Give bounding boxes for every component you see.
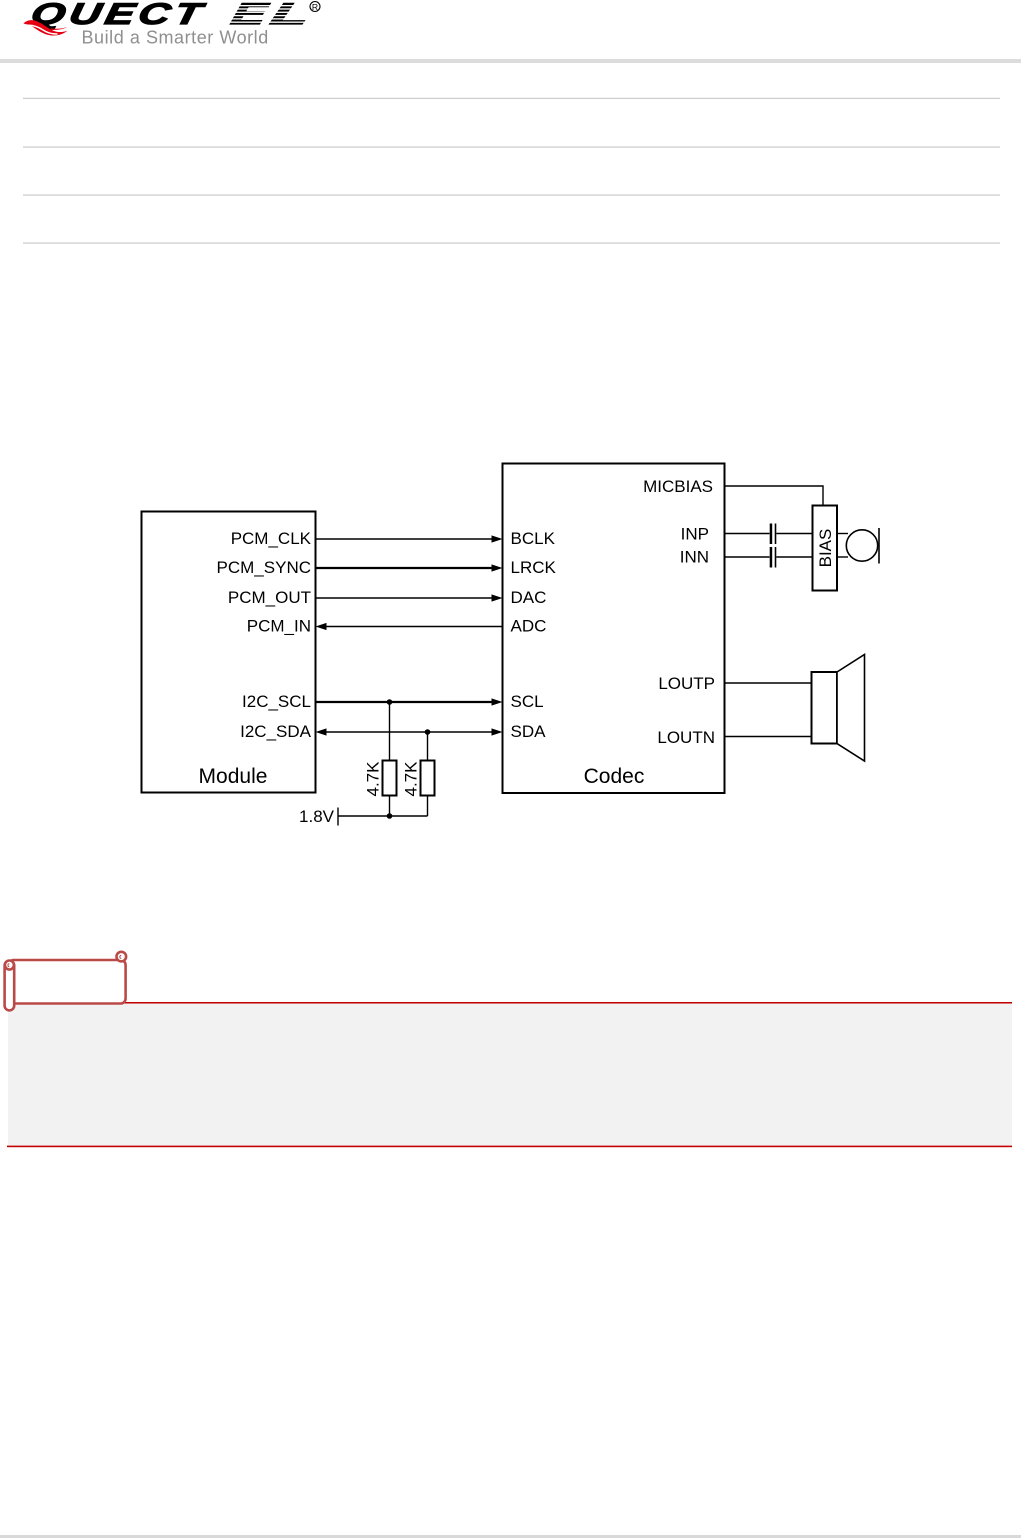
arrowhead DAC: [492, 594, 503, 601]
note scroll icon: [5, 952, 127, 1011]
arrowhead SDA left: [316, 728, 327, 735]
svg-text:MICBIAS: MICBIAS: [643, 477, 713, 496]
capacitor C2: [770, 547, 777, 568]
note gray area: [8, 1004, 1012, 1146]
svg-text:LRCK: LRCK: [511, 558, 557, 577]
header table line 3: [23, 195, 1000, 196]
bias network box: [813, 506, 838, 591]
junction dot on SDA: [425, 729, 431, 735]
svg-text:Build a Smarter World: Build a Smarter World: [82, 28, 269, 48]
wire SDA to resistor R2: [427, 732, 429, 761]
1.8V supply rail: [338, 815, 428, 817]
footer gray bar: [0, 1535, 1021, 1538]
svg-text:BCLK: BCLK: [511, 529, 556, 548]
svg-text:PCM_SYNC: PCM_SYNC: [217, 558, 311, 577]
wire C2 to bias box: [776, 556, 812, 558]
speaker LS1: [812, 655, 865, 762]
svg-text:PCM_OUT: PCM_OUT: [228, 588, 311, 607]
svg-text:SCL: SCL: [511, 692, 544, 711]
arrowhead BCLK: [492, 535, 503, 542]
wire MICBIAS to bias network: [725, 486, 824, 506]
junction dot on SCL: [387, 699, 393, 705]
svg-text:R: R: [312, 2, 318, 12]
svg-text:4.7K: 4.7K: [364, 761, 383, 797]
Quectel logo wordmark: [28, 0, 314, 31]
arrowhead SDA right: [492, 728, 503, 735]
wire C1 to bias box: [776, 533, 812, 535]
arrowhead SCL: [492, 698, 503, 705]
header table line 1: [23, 98, 1000, 99]
wire PCM_OUT to DAC: [317, 597, 493, 599]
arrowhead LRCK: [492, 564, 503, 571]
svg-text:PCM_CLK: PCM_CLK: [231, 529, 312, 548]
wire INP to capacitor C1: [725, 533, 770, 535]
svg-text:INP: INP: [681, 525, 709, 544]
svg-text:LOUTP: LOUTP: [658, 674, 715, 693]
wire bias box to microphone upper: [837, 533, 848, 535]
wire R1 to rail: [389, 796, 391, 817]
svg-text:I2C_SCL: I2C_SCL: [242, 692, 311, 711]
note bottom red line: [7, 1146, 1012, 1148]
svg-text:QUECT: QUECT: [28, 0, 209, 30]
svg-text:DAC: DAC: [511, 588, 547, 607]
logo red swoosh: [24, 20, 68, 35]
svg-text:LOUTN: LOUTN: [657, 728, 715, 747]
svg-text:SDA: SDA: [511, 722, 547, 741]
wire LOUTP to speaker: [725, 682, 812, 684]
wire ADC to PCM_IN: [327, 626, 503, 628]
note top red line: [7, 1002, 1012, 1004]
wire INN to capacitor C2: [725, 556, 770, 558]
capacitor C1: [770, 524, 777, 545]
wire I2C_SCL to SCL: [317, 701, 493, 703]
codec block U2: [503, 464, 725, 794]
wire bias box to microphone lower: [837, 556, 848, 558]
svg-text:PCM_IN: PCM_IN: [247, 617, 311, 636]
wire R2 to rail: [427, 796, 429, 817]
resistor R2 body: [421, 761, 435, 796]
header table line 2: [23, 147, 1000, 148]
svg-text:1.8V: 1.8V: [299, 807, 335, 826]
svg-text:INN: INN: [680, 548, 709, 567]
microphone MK1: [846, 528, 879, 564]
wire PCM_SYNC to LRCK: [317, 567, 493, 569]
header gray bar: [0, 59, 1021, 63]
header table line 4: [23, 243, 1000, 244]
wire LOUTN to speaker: [725, 736, 812, 738]
arrowhead PCM_IN: [316, 623, 327, 630]
svg-text:Module: Module: [199, 765, 268, 788]
wire SCL to resistor R1: [389, 702, 391, 761]
1.8V supply tick: [337, 808, 339, 826]
svg-text:4.7K: 4.7K: [402, 761, 421, 797]
logo swoosh white slit: [25, 25, 58, 34]
svg-text:BIAS: BIAS: [816, 529, 835, 568]
resistor R1 body: [383, 761, 397, 796]
junction dot on rail: [387, 813, 393, 819]
svg-text:I2C_SDA: I2C_SDA: [240, 722, 312, 741]
wire I2C_SDA to SDA: [327, 731, 493, 733]
svg-text:ADC: ADC: [511, 617, 547, 636]
wire PCM_CLK to BCLK: [317, 538, 493, 540]
logo registered mark: [310, 2, 320, 13]
module block U1: [142, 512, 316, 793]
svg-text:Codec: Codec: [584, 765, 645, 788]
